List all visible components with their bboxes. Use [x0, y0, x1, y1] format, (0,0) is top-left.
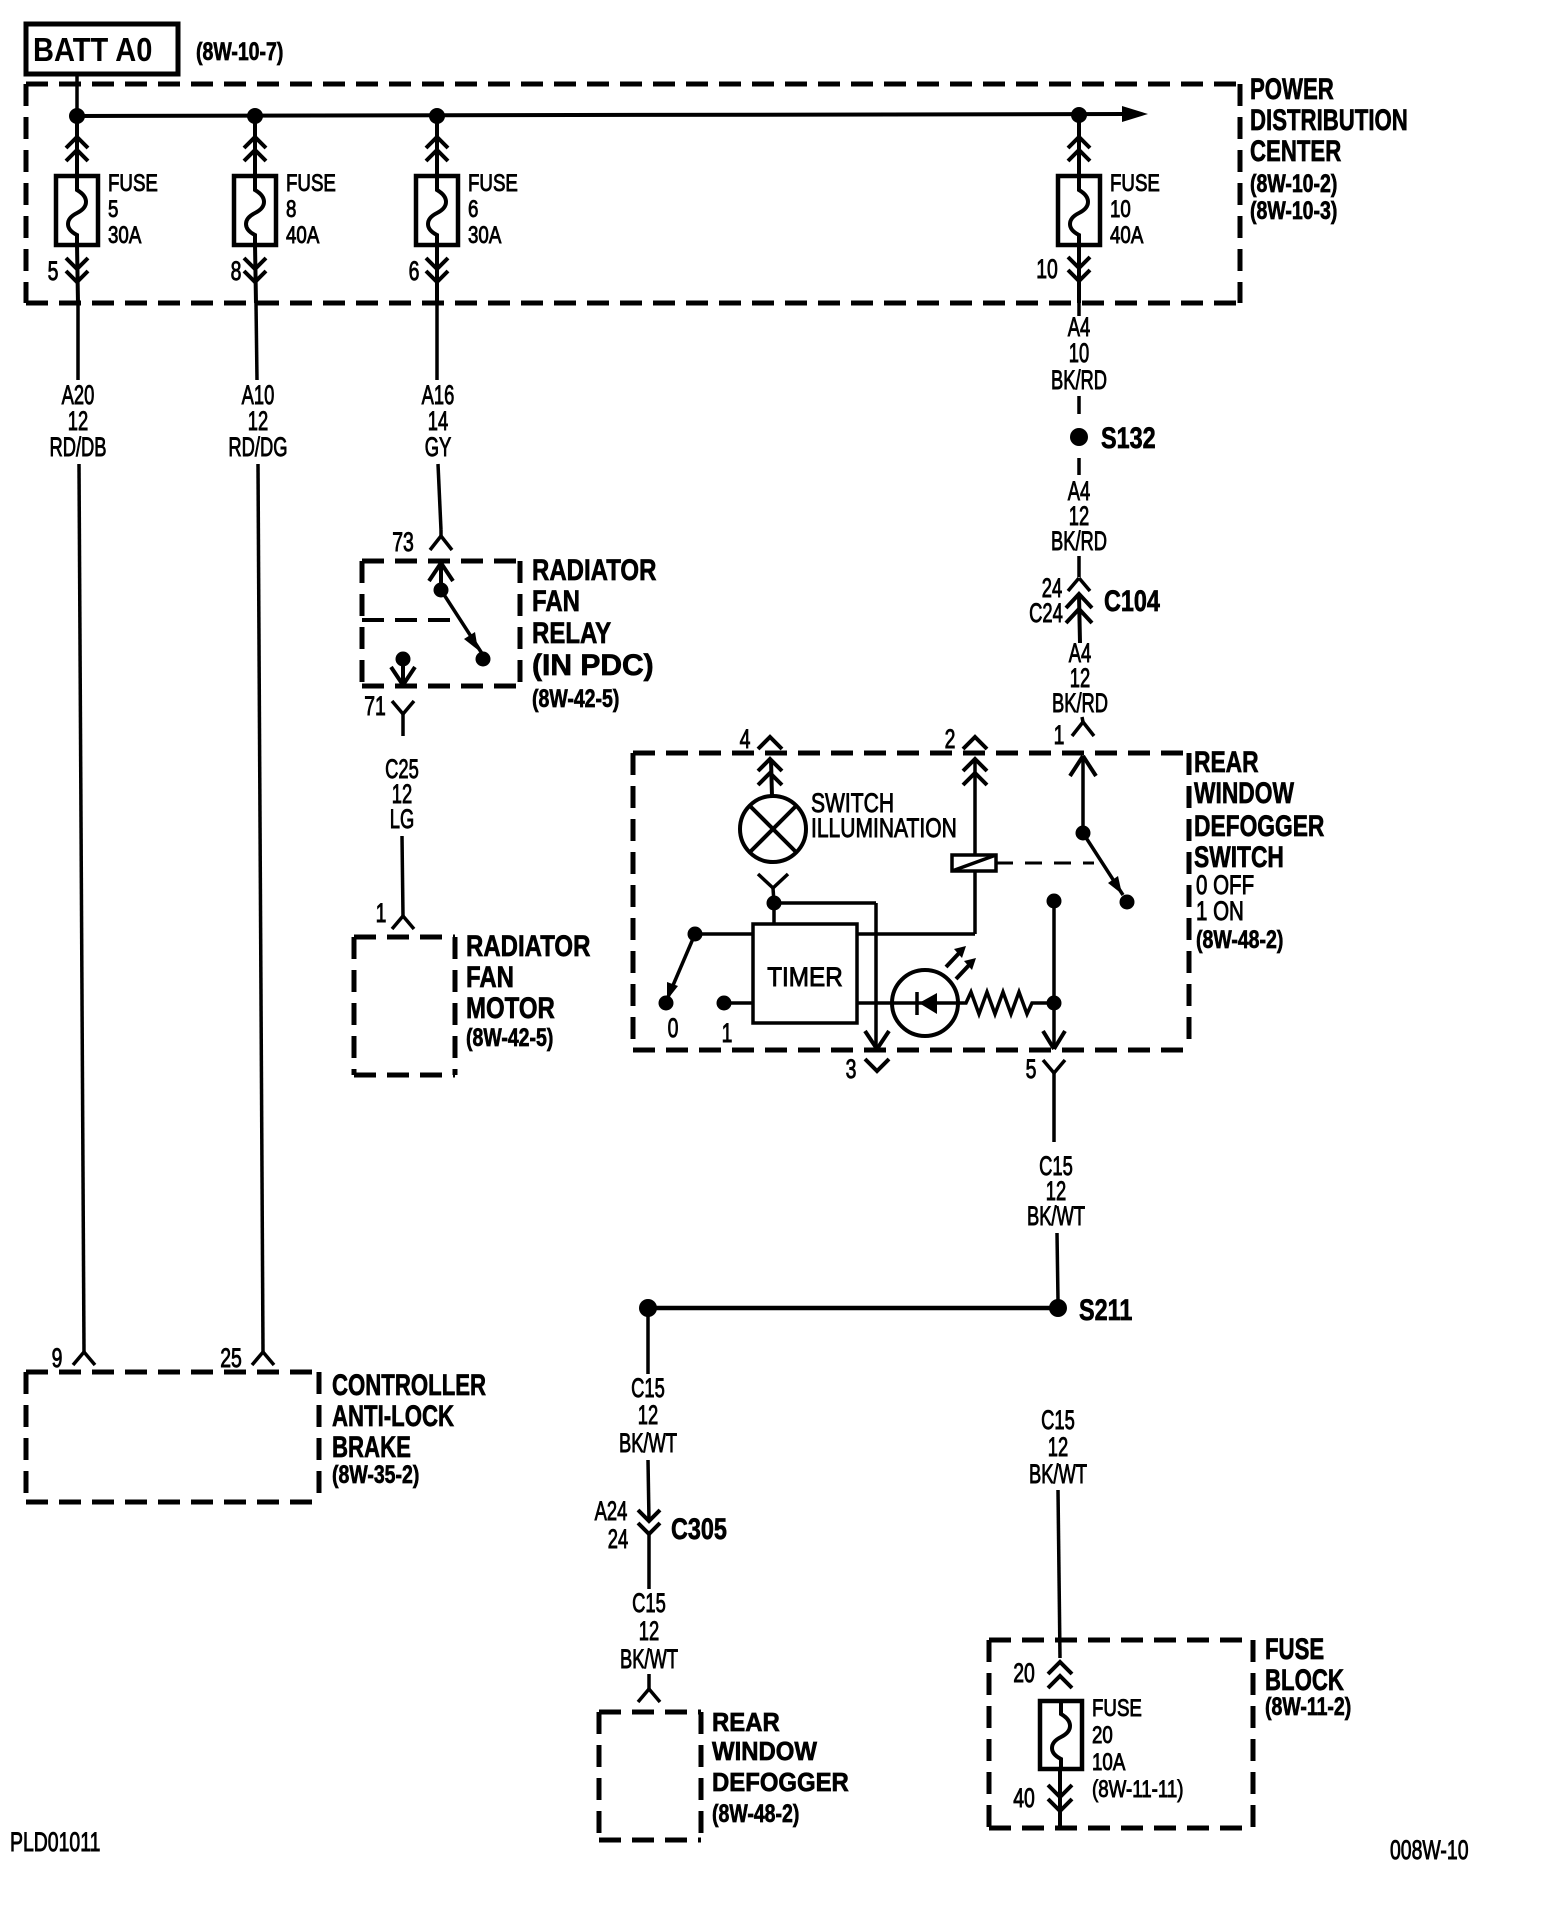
splice branch wire to left — [648, 1306, 1058, 1311]
svg-text:(8W-11-2): (8W-11-2) — [1265, 1693, 1351, 1721]
fuse F8 value label — [286, 170, 336, 249]
svg-text:BK/WT: BK/WT — [620, 1643, 678, 1673]
svg-text:10A: 10A — [1092, 1749, 1126, 1776]
wire dash below splice S132 — [1077, 458, 1081, 475]
switch output wire to pin 5 — [1052, 901, 1056, 1046]
switch lever pin1 to output — [1083, 833, 1123, 895]
relay contact arm (to NO contact) — [441, 590, 483, 655]
svg-text:BK/RD: BK/RD — [1051, 364, 1107, 394]
fuse 8 output connector chevrons — [244, 245, 266, 303]
svg-text:5: 5 — [48, 256, 59, 286]
svg-text:8: 8 — [231, 256, 242, 286]
svg-text:(8W-42-5): (8W-42-5) — [466, 1024, 553, 1052]
junction dot at fuse 5 — [69, 108, 85, 124]
svg-text:24: 24 — [608, 1523, 629, 1553]
svg-text:POWER: POWER — [1250, 72, 1334, 106]
svg-text:BK/WT: BK/WT — [619, 1427, 677, 1457]
svg-text:DEFOGGER: DEFOGGER — [712, 1768, 849, 1797]
svg-text:12: 12 — [638, 1399, 658, 1429]
label RADIATOR FAN MOTOR (8W-42-5) — [466, 928, 591, 1051]
LED light arrow 1 — [946, 946, 966, 967]
svg-text:1: 1 — [376, 898, 387, 928]
svg-text:5: 5 — [108, 196, 118, 223]
svg-text:A24: A24 — [595, 1495, 628, 1525]
switch output top dot — [1047, 894, 1062, 909]
svg-text:(8W-35-2): (8W-35-2) — [332, 1461, 419, 1489]
bus wire B+ — [77, 114, 1124, 116]
label CONTROLLER ANTI-LOCK BRAKE (8W-35-2) — [332, 1368, 486, 1489]
relay pin 71 exit arrow — [391, 659, 415, 685]
svg-text:0: 0 — [668, 1013, 679, 1043]
svg-text:FUSE: FUSE — [1265, 1632, 1324, 1666]
controller anti-lock brake dashed box — [26, 1372, 319, 1502]
svg-text:C104: C104 — [1104, 584, 1160, 617]
wire lamp dot to timer — [772, 903, 776, 924]
wire below C305 — [647, 1534, 651, 1589]
svg-text:30A: 30A — [108, 222, 142, 249]
label POWER DISTRIBUTION CENTER — [1250, 72, 1408, 225]
svg-text:1: 1 — [1054, 720, 1065, 750]
wire label C15 12 BK/WT (to defogger) — [620, 1587, 678, 1673]
svg-text:RADIATOR: RADIATOR — [532, 552, 657, 586]
svg-text:WINDOW: WINDOW — [1194, 776, 1295, 810]
svg-text:REAR: REAR — [712, 1708, 780, 1737]
svg-text:FAN: FAN — [466, 959, 514, 993]
power distribution center dashed box — [26, 84, 1240, 303]
connector C104 pin labels 24 / C24 — [1029, 572, 1063, 627]
svg-text:40A: 40A — [1110, 222, 1144, 249]
switch position 1 dot — [717, 996, 732, 1011]
relay NO contact dot — [476, 652, 491, 667]
svg-text:BATT A0: BATT A0 — [33, 31, 152, 68]
svg-text:6: 6 — [409, 256, 420, 286]
svg-text:SWITCH: SWITCH — [1194, 840, 1284, 874]
wire label C25 12 LG — [385, 753, 419, 833]
fuse 6 feed connector chevrons — [426, 122, 448, 176]
svg-text:RADIATOR: RADIATOR — [466, 928, 591, 962]
wire switch common to timer — [695, 932, 753, 936]
svg-text:CONTROLLER: CONTROLLER — [332, 1368, 486, 1402]
svg-text:71: 71 — [364, 691, 386, 721]
wire below branch dot — [646, 1308, 650, 1374]
switch pin 2 connector chevrons inside — [963, 759, 987, 785]
relay output contact dot — [396, 652, 411, 667]
fuse 10 feed connector chevrons — [1068, 121, 1090, 176]
svg-text:C305: C305 — [671, 1512, 727, 1545]
svg-text:12: 12 — [1048, 1431, 1068, 1461]
pin 1 entry arrow into switch — [1070, 756, 1096, 833]
connector C104 chevrons — [1066, 594, 1092, 643]
svg-text:1 ON: 1 ON — [1196, 896, 1244, 926]
fork above rear window defogger — [638, 1689, 660, 1702]
relay contact arm arrowhead — [464, 632, 478, 650]
junction dot at fuse 6 — [429, 108, 445, 124]
svg-text:FUSE: FUSE — [468, 170, 518, 197]
fuse 6 output connector chevrons — [426, 245, 448, 303]
svg-text:(8W-42-5): (8W-42-5) — [532, 685, 619, 713]
LED diode triangle — [919, 993, 937, 1014]
svg-text:20: 20 — [1092, 1722, 1113, 1749]
svg-text:S132: S132 — [1101, 421, 1156, 454]
svg-text:TIMER: TIMER — [767, 963, 843, 992]
svg-text:9: 9 — [52, 1343, 63, 1373]
branch junction dot — [639, 1299, 657, 1317]
svg-text:CENTER: CENTER — [1250, 134, 1341, 168]
wire A10 upper — [256, 303, 257, 380]
svg-text:6: 6 — [468, 196, 478, 223]
wire to splice S211 — [1057, 1233, 1058, 1300]
svg-text:BK/RD: BK/RD — [1052, 687, 1108, 717]
junction dot resistor to pin 5 wire — [1047, 996, 1062, 1011]
fuse F8 — [234, 176, 276, 245]
wire A16 upper — [435, 303, 439, 380]
wire A4 upper — [1077, 303, 1081, 316]
wire relay coil to timer — [857, 871, 975, 934]
svg-text:2: 2 — [945, 724, 956, 754]
fuse F10 value label — [1110, 170, 1160, 249]
svg-text:FUSE: FUSE — [1092, 1695, 1142, 1722]
switch contact dot pin 1 — [1076, 826, 1091, 841]
switch lever arrowhead — [667, 982, 678, 1000]
svg-text:MOTOR: MOTOR — [466, 990, 555, 1024]
svg-text:5: 5 — [1026, 1054, 1037, 1084]
svg-text:20: 20 — [1013, 1658, 1035, 1688]
svg-text:1: 1 — [722, 1018, 733, 1048]
relay coil actuating dashed link — [996, 862, 1094, 865]
svg-text:10: 10 — [1069, 337, 1089, 367]
resistor — [958, 992, 1047, 1014]
junction dot below lamp — [767, 896, 782, 911]
svg-text:BRAKE: BRAKE — [332, 1430, 411, 1464]
pin 1 fork at switch box edge — [1072, 722, 1094, 736]
wire A20 lower — [79, 464, 84, 1352]
svg-text:BK/RD: BK/RD — [1051, 525, 1107, 555]
svg-text:S211: S211 — [1079, 1293, 1132, 1326]
svg-text:4: 4 — [740, 724, 751, 754]
svg-text:C15: C15 — [632, 1587, 666, 1617]
svg-text:FAN: FAN — [532, 583, 580, 617]
wire stub into defogger fork — [647, 1674, 651, 1689]
fuse F20 value label — [1092, 1695, 1184, 1803]
relay pin 73 entry arrow — [429, 563, 453, 590]
label REAR WINDOW DEFOGGER (8W-48-2) — [712, 1708, 849, 1827]
svg-text:FUSE: FUSE — [286, 170, 336, 197]
pin 71 fork below relay — [392, 701, 414, 736]
svg-text:25: 25 — [220, 1343, 242, 1373]
svg-text:73: 73 — [392, 527, 414, 557]
svg-text:(IN PDC): (IN PDC) — [532, 649, 654, 682]
label SWITCH ILLUMINATION — [811, 789, 957, 844]
svg-text:WINDOW: WINDOW — [712, 1737, 817, 1766]
wire label C15 12 BK/WT (right branch) — [1029, 1404, 1087, 1488]
svg-text:RD/DG: RD/DG — [228, 431, 287, 461]
svg-text:C15: C15 — [631, 1372, 665, 1402]
lamp lower fork — [758, 874, 788, 903]
fuse F10 — [1058, 176, 1100, 245]
wire timer to LED — [857, 1001, 892, 1005]
fuse block pin 40 connector chevrons — [1048, 1769, 1072, 1826]
fuse 10 output connector chevrons — [1068, 245, 1090, 303]
arrowhead of bus wire — [1122, 106, 1148, 122]
wire A20 upper — [76, 303, 80, 380]
svg-text:(8W-10-7): (8W-10-7) — [196, 38, 283, 66]
switch lever arrowhead — [1108, 876, 1122, 894]
svg-text:FUSE: FUSE — [1110, 170, 1160, 197]
switch lever to position 0 — [668, 934, 695, 997]
wire label A4 12 BK/RD upper — [1051, 475, 1107, 555]
fuse F5 value label — [108, 170, 158, 249]
switch common dot (timer input) — [688, 927, 703, 942]
connector C305 chevrons — [638, 1510, 660, 1534]
svg-text:RELAY: RELAY — [532, 615, 611, 649]
switch illumination lamp — [740, 796, 806, 862]
junction dot at fuse 10 — [1071, 107, 1087, 123]
fuse 8 feed connector chevrons — [244, 122, 266, 176]
svg-text:PLD01011: PLD01011 — [10, 1827, 100, 1857]
wire label A10 12 RD/DG — [228, 379, 287, 461]
wire label A20 12 RD/DB — [49, 379, 106, 461]
defogger relay coil — [952, 855, 996, 871]
svg-text:BK/WT: BK/WT — [1029, 1458, 1087, 1488]
svg-text:3: 3 — [846, 1054, 857, 1084]
wire label A4 10 BK/RD — [1051, 311, 1107, 394]
splice S132 — [1070, 428, 1088, 446]
radiator fan relay dashed box — [362, 561, 520, 686]
svg-text:10: 10 — [1110, 196, 1131, 223]
svg-text:BK/WT: BK/WT — [1027, 1200, 1085, 1230]
svg-text:(8W-10-3): (8W-10-3) — [1250, 197, 1337, 225]
pin 5 exit arrowhead — [1043, 1031, 1065, 1049]
pin 3 exit arrowhead — [865, 1031, 889, 1049]
wire label C15 12 BK/WT (below pin 5) — [1027, 1150, 1085, 1230]
fuse F6 value label — [468, 170, 518, 249]
rear window defogger dashed box — [599, 1712, 701, 1840]
fuse F20 — [1040, 1701, 1082, 1769]
label FUSE BLOCK (8W-11-2) — [1265, 1632, 1351, 1721]
svg-text:C24: C24 — [1029, 597, 1063, 627]
svg-text:(8W-48-2): (8W-48-2) — [1196, 926, 1283, 954]
fuse 5 output connector chevrons — [66, 245, 88, 303]
wire A16 lower — [438, 464, 441, 530]
svg-text:10: 10 — [1036, 254, 1058, 284]
pin 1 fork above fan motor — [392, 916, 414, 929]
wire to fuse block — [1058, 1490, 1060, 1658]
fuse F6 — [416, 176, 458, 245]
wire position 1 to timer — [724, 1001, 753, 1005]
label RADIATOR FAN RELAY (IN PDC) (8W-42-5) — [532, 552, 657, 712]
wire into C104 — [1077, 556, 1081, 577]
svg-text:30A: 30A — [468, 222, 502, 249]
svg-text:DEFOGGER: DEFOGGER — [1194, 809, 1324, 843]
svg-text:C15: C15 — [1041, 1404, 1075, 1434]
svg-text:ILLUMINATION: ILLUMINATION — [811, 814, 957, 844]
svg-text:GY: GY — [425, 431, 452, 461]
pin 9 fork above controller — [73, 1352, 95, 1365]
svg-text:ANTI-LOCK: ANTI-LOCK — [332, 1399, 454, 1433]
switch pin 4 connector chevrons inside — [758, 759, 782, 796]
svg-text:40: 40 — [1013, 1783, 1035, 1813]
wire BATT A0 to bus — [75, 74, 79, 116]
battery feed box BATT A0 — [26, 24, 178, 74]
junction dot at fuse 8 — [247, 108, 263, 124]
switch lever end dot — [1120, 895, 1135, 910]
relay common contact dot — [434, 583, 449, 598]
wire pin 2 to relay coil — [973, 760, 977, 855]
wire into C305 — [648, 1460, 649, 1521]
svg-text:FUSE: FUSE — [108, 170, 158, 197]
label REAR WINDOW DEFOGGER SWITCH — [1194, 745, 1324, 954]
fuse block pin 20 connector chevrons — [1048, 1662, 1072, 1688]
timer box — [753, 924, 857, 1023]
wire into defogger switch pin 1 — [1082, 717, 1083, 722]
switch pin 4 chevron above edge — [758, 737, 782, 749]
splice S211 — [1049, 1299, 1067, 1317]
svg-text:(8W-11-11): (8W-11-11) — [1092, 1776, 1184, 1803]
wire A10 lower — [258, 464, 263, 1352]
pin 25 fork above controller — [252, 1352, 274, 1365]
wire dash above splice S132 — [1077, 396, 1081, 414]
connector C104 fork — [1068, 578, 1090, 591]
svg-text:REAR: REAR — [1194, 745, 1259, 779]
wire label A16 14 GY — [422, 379, 455, 461]
pin 73 fork above relay — [430, 530, 452, 550]
svg-text:12: 12 — [639, 1615, 659, 1645]
radiator fan motor dashed box — [354, 937, 455, 1075]
svg-text:(8W-48-2): (8W-48-2) — [712, 1800, 799, 1828]
fuse 5 feed connector chevrons — [66, 122, 88, 176]
connector C305 pin labels A24 / 24 — [595, 1495, 629, 1553]
svg-text:8: 8 — [286, 196, 296, 223]
svg-text:40A: 40A — [286, 222, 320, 249]
pin 3 chevron below edge — [865, 1059, 889, 1071]
switch position 0 dot — [659, 996, 674, 1011]
wire C25 — [402, 836, 403, 916]
switch pin 2 chevron above edge — [963, 737, 987, 749]
fuse F5 — [56, 176, 98, 245]
wire label C15 12 BK/WT (left branch) — [619, 1372, 677, 1457]
svg-text:LG: LG — [390, 803, 414, 833]
fuse block dashed box — [989, 1640, 1253, 1828]
wire label A4 12 BK/RD lower — [1052, 637, 1108, 717]
indicator LED — [892, 970, 958, 1036]
rear window defogger switch dashed box — [633, 753, 1189, 1050]
wire lamp dot to pin 3 branch — [774, 903, 876, 1046]
svg-text:008W-10: 008W-10 — [1390, 1835, 1469, 1865]
svg-text:DISTRIBUTION: DISTRIBUTION — [1250, 103, 1408, 137]
pin 5 fork below edge — [1043, 1060, 1065, 1142]
LED light arrow 2 — [956, 958, 976, 979]
svg-text:RD/DB: RD/DB — [49, 431, 106, 461]
svg-text:(8W-10-2): (8W-10-2) — [1250, 170, 1337, 198]
